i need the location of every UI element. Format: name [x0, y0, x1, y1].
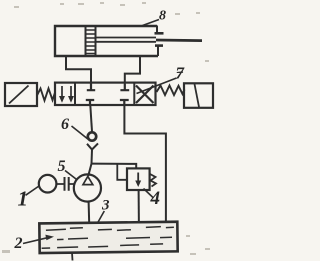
cylinder C body	[55, 26, 158, 56]
pump triangle	[83, 176, 93, 184]
wire: relief valve drain to tank	[138, 190, 140, 237]
label 4 leader	[144, 189, 154, 199]
svg-text:1: 1	[18, 187, 29, 211]
cylinder right cap top	[156, 26, 158, 33]
svg-text:8: 8	[159, 9, 166, 24]
wire: valve port T to tank return	[124, 105, 165, 237]
relief valve RV body	[127, 168, 150, 190]
motor M circle	[39, 175, 57, 193]
relief valve arrow	[137, 173, 139, 183]
label 3 leader	[93, 211, 105, 232]
wire: cylinder right port to valve port B	[125, 56, 140, 84]
shaft and coupling	[56, 183, 74, 185]
svg-text:6: 6	[61, 116, 69, 133]
wire: branch to relief valve	[91, 164, 136, 169]
scan noise specks	[2, 2, 210, 255]
wire: check valve to pump / junction	[88, 150, 92, 177]
spring left	[37, 89, 55, 101]
label 7 leader	[137, 78, 177, 94]
wire stub below tank	[71, 253, 74, 261]
label 1 leader	[26, 186, 40, 195]
svg-text:4: 4	[150, 188, 161, 209]
tank T	[39, 222, 177, 253]
filter F diamond	[84, 227, 94, 240]
label 5 leader	[65, 171, 77, 180]
label 8 leader	[143, 20, 160, 26]
solenoid Y2 (right)	[184, 83, 213, 108]
solenoid Y1 (left)	[5, 83, 37, 106]
wire: cylinder left port to valve port A	[66, 56, 91, 83]
svg-text:5: 5	[58, 158, 66, 175]
valve centre blocked ports	[86, 83, 129, 105]
label 2 leader arrow	[23, 238, 47, 244]
svg-text:2: 2	[14, 235, 23, 252]
svg-text:3: 3	[101, 198, 110, 214]
relief valve spring	[150, 174, 156, 187]
piston rod extension	[156, 39, 202, 42]
tank liquid dashes	[41, 226, 174, 248]
pump P circle	[74, 174, 101, 201]
spring right	[157, 86, 185, 96]
label 6 leader	[72, 126, 88, 139]
valve V1 body (3 position boxes)	[55, 83, 156, 105]
piston rod (double line inside)	[96, 38, 157, 42]
check valve CV (ball and seat)	[88, 132, 96, 140]
valve right position crossed arrows	[136, 86, 154, 104]
relief valve pilot loop	[117, 164, 127, 180]
wire: pump suction line	[88, 202, 91, 227]
wire: valve port P down to check valve	[90, 105, 92, 132]
valve left position arrows	[60, 86, 73, 102]
piston (hatched)	[86, 26, 96, 56]
cylinder right cap bottom	[157, 47, 159, 57]
